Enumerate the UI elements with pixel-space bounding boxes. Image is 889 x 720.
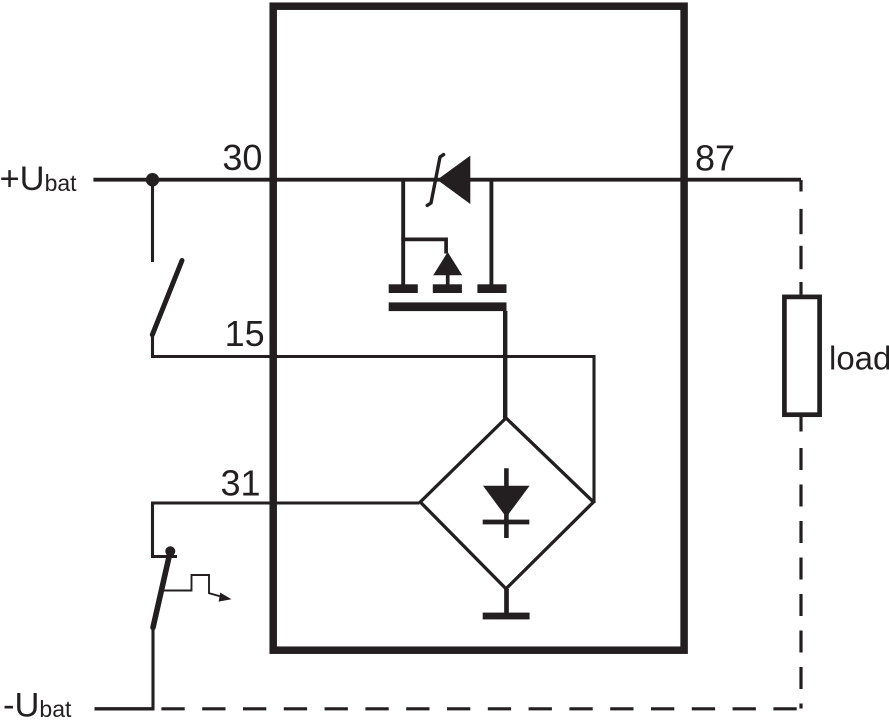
wire: load dashed drop (lower)	[799, 417, 802, 709]
wire: -Ubat dashed rail to load	[161, 707, 801, 710]
switch S2 blade (pulsed switch)	[153, 551, 170, 627]
wire: MOSFET to diamond top vertex	[503, 311, 507, 419]
diode D2 inside diamond	[483, 468, 530, 538]
wire: switch S1 to terminal 15	[151, 337, 154, 357]
label +Ubat	[0, 160, 77, 198]
svg-text:87: 87	[695, 137, 735, 178]
diode bridge diamond	[420, 418, 593, 589]
MOSFET Q1 substrate arrow	[433, 252, 462, 285]
square wave pulse symbol with arrow	[164, 575, 232, 602]
svg-text:+Ubat: +Ubat	[0, 160, 77, 198]
wire: switch S2 down to -Ubat rail	[151, 629, 154, 709]
svg-text:15: 15	[225, 313, 265, 354]
wire: 31 down to switch S2 with contact tick	[151, 503, 177, 557]
load resistor	[784, 297, 819, 415]
MOSFET Q1 gate branch	[401, 239, 446, 253]
wire: terminal 31 horizontal	[151, 501, 420, 504]
wire: 87 dashed drop to load (upper)	[799, 180, 802, 295]
label terminal 15	[225, 313, 265, 354]
switch S2 pivot dot	[165, 546, 175, 556]
switch S1 blade (ignition switch)	[152, 261, 182, 335]
node junction at +Ubat	[146, 173, 159, 186]
MOSFET Q1 channel bar	[389, 302, 507, 311]
label -Ubat	[3, 686, 72, 720]
label terminal 31	[220, 463, 260, 504]
svg-text:30: 30	[222, 137, 262, 178]
relay enclosure box	[273, 6, 684, 650]
wire: junction down to switch S1	[151, 180, 154, 262]
label load	[829, 340, 889, 377]
MOSFET Q1 drain vertical (left)	[401, 181, 405, 285]
MOSFET Q1 source vertical (right)	[489, 181, 493, 285]
MOSFET Q1 channel contact bars	[389, 284, 507, 293]
body diode D1 slashed cathode	[427, 155, 443, 206]
body diode D1 triangle	[437, 156, 470, 204]
svg-text:load: load	[829, 340, 889, 377]
wire: -Ubat solid segment	[95, 707, 155, 710]
ground	[483, 589, 530, 619]
svg-text:-Ubat: -Ubat	[3, 686, 72, 720]
wire: +Ubat / 30 / 87 main horizontal	[93, 178, 801, 182]
wire: terminal 15 horizontal and down to diamond right vertex	[151, 357, 594, 504]
label terminal 87	[695, 137, 735, 178]
svg-text:31: 31	[220, 463, 260, 504]
label terminal 30	[222, 137, 262, 178]
